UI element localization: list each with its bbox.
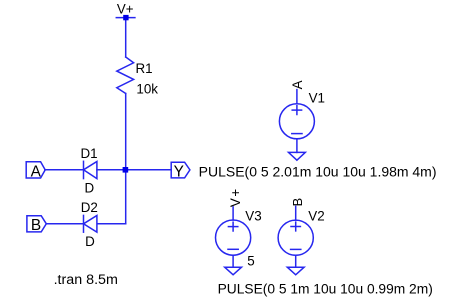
port A (26, 162, 45, 178)
port Y (171, 162, 190, 178)
svg-text:Y: Y (174, 163, 184, 180)
wire port A to D1 cathode (45, 169, 84, 171)
diode D2 (84, 215, 97, 232)
svg-text:R1: R1 (136, 61, 153, 76)
ground below V3 (225, 267, 242, 275)
svg-text:V2: V2 (308, 208, 324, 223)
ground below V2 (287, 267, 304, 275)
diode D1 (84, 161, 97, 178)
resistor R1 (117, 57, 134, 94)
voltage source V2 (278, 206, 313, 267)
svg-text:D1: D1 (81, 146, 98, 161)
voltage source V1 (279, 90, 314, 153)
wire D2 anode to vertical bus (97, 223, 125, 225)
wire port B to D2 cathode (46, 223, 83, 225)
svg-text:D2: D2 (81, 200, 98, 215)
voltage source V3 (216, 207, 251, 267)
svg-text:V+: V+ (228, 187, 243, 207)
wire V+ flag horizontal stub (116, 17, 135, 19)
svg-text:D: D (85, 234, 95, 249)
junction square at V+ node (123, 15, 128, 20)
svg-text:V3: V3 (245, 208, 261, 223)
wire D1 anode to Y port (97, 169, 171, 171)
svg-text:A: A (290, 80, 305, 89)
svg-text:10k: 10k (136, 82, 158, 97)
wire V+ node down to R1 (125, 18, 127, 57)
svg-text:PULSE(0 5 1m 10u 10u 0.99m 2m): PULSE(0 5 1m 10u 10u 0.99m 2m) (218, 282, 433, 297)
junction square at diode AND node (123, 167, 129, 173)
svg-text:B: B (31, 217, 41, 234)
svg-text:PULSE(0 5 2.01m 10u 10u 1.98m: PULSE(0 5 2.01m 10u 10u 1.98m 4m) (199, 164, 437, 179)
svg-text:.tran 8.5m: .tran 8.5m (54, 272, 118, 287)
svg-text:V1: V1 (309, 91, 325, 106)
svg-text:V+: V+ (117, 2, 134, 17)
svg-text:A: A (31, 163, 42, 180)
wire R1 bottom through junction down to D2 row (125, 94, 127, 224)
port B (27, 216, 46, 232)
ground below V1 (289, 152, 306, 160)
svg-text:B: B (290, 198, 305, 207)
svg-text:5: 5 (247, 253, 254, 268)
svg-text:D: D (85, 181, 95, 196)
